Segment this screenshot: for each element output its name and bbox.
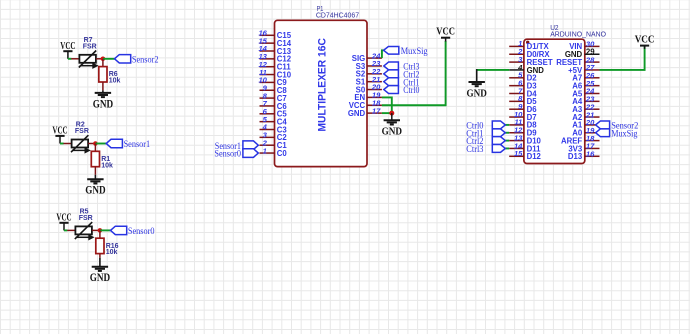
U2 pin 29 (GND) bbox=[565, 47, 600, 59]
U2 pin 23 (A4) bbox=[572, 95, 599, 107]
wire junction down to ground symbol bbox=[391, 113, 393, 120]
power flag VCC (sensor Sensor0) bbox=[56, 213, 71, 231]
wire Ctrl2 flag to U2 pin 13 bbox=[505, 140, 509, 142]
wire VCC to FSR bbox=[64, 229, 67, 231]
multiplexer P1 CD74HC4067 body bbox=[275, 20, 368, 166]
P1 pin 20 (S0) bbox=[356, 83, 382, 95]
wire Ctrl0 flag to U2 pin 11 bbox=[505, 124, 509, 126]
svg-text:Ctrl0: Ctrl0 bbox=[403, 86, 419, 96]
P1 pin 17 (GND) bbox=[348, 106, 382, 118]
microcontroller U2 ARDUINO_NANO body bbox=[524, 39, 585, 163]
net flag Ctrl3 (to U2 D11) bbox=[466, 145, 505, 156]
net flag Ctrl1 (P1 S1) bbox=[384, 78, 420, 89]
svg-text:MuxSig: MuxSig bbox=[401, 47, 428, 57]
svg-text:VCC: VCC bbox=[436, 26, 455, 37]
P1 pin 8 (C7) bbox=[260, 91, 287, 103]
svg-text:17: 17 bbox=[372, 106, 381, 115]
P1 pin 14 (C13) bbox=[258, 44, 291, 56]
ground symbol (sensor Sensor2) bbox=[93, 93, 113, 110]
P1 pin 16 (C15) bbox=[258, 29, 291, 41]
svg-text:10k: 10k bbox=[106, 249, 118, 256]
svg-text:Sensor0: Sensor0 bbox=[214, 150, 241, 160]
svg-text:FSR: FSR bbox=[79, 215, 93, 222]
svg-text:Sensor2: Sensor2 bbox=[132, 55, 159, 65]
P1 pin 6 (C5) bbox=[260, 107, 288, 119]
svg-text:FSR: FSR bbox=[75, 128, 89, 135]
U2 pin 16 (D13) bbox=[568, 150, 600, 162]
wire Ctrl3 flag to U2 pin 14 bbox=[505, 147, 509, 149]
P1 pin 7 (C6) bbox=[260, 99, 288, 111]
P1 pin 5 (C4) bbox=[260, 115, 288, 127]
U2 pin 15 (D12) bbox=[509, 149, 541, 161]
svg-text:GND: GND bbox=[90, 270, 110, 284]
net flag Sensor1 bbox=[106, 139, 150, 150]
ground symbol (P1) bbox=[382, 120, 403, 137]
svg-text:D12: D12 bbox=[527, 152, 542, 161]
FSR resistor R2 bbox=[71, 122, 90, 153]
P1 pin 4 (C3) bbox=[260, 123, 288, 135]
svg-text:16: 16 bbox=[586, 150, 595, 159]
P1 pin 13 (C12) bbox=[258, 52, 291, 64]
P1 pin 19 (EN) bbox=[354, 91, 382, 103]
svg-text:ARDUINO_NANO: ARDUINO_NANO bbox=[550, 30, 606, 39]
P1 pin 11 (C10) bbox=[259, 68, 292, 80]
net flag Ctrl2 (P1 S2) bbox=[384, 70, 420, 81]
svg-text:FSR: FSR bbox=[83, 43, 97, 50]
pin wire right of R2 bbox=[88, 143, 95, 145]
ground symbol (sensor Sensor1) bbox=[85, 179, 105, 196]
net flag Sensor2 bbox=[115, 55, 159, 66]
wire P1 SIG to MuxSig flag bbox=[382, 50, 384, 58]
pin wire left of R5 bbox=[67, 229, 75, 231]
ground symbol (sensor Sensor0) bbox=[90, 267, 110, 284]
wire junction to flag Sensor2 bbox=[103, 58, 115, 60]
svg-text:D13: D13 bbox=[568, 152, 583, 161]
P1 pin 12 (C11) bbox=[258, 60, 291, 72]
net flag Ctrl0 (to U2 D8) bbox=[466, 121, 505, 132]
power flag VCC (sensor Sensor2) bbox=[60, 41, 75, 59]
wire junction down to R1 bbox=[94, 144, 96, 152]
svg-text:MULTIPLEXER 16C: MULTIPLEXER 16C bbox=[316, 38, 328, 131]
resistor R16 10k bbox=[96, 238, 119, 256]
U2 pin 26 (A7) bbox=[572, 71, 599, 83]
junction node Sensor2 bbox=[101, 57, 106, 62]
net flag MuxSig (P1 SIG) bbox=[384, 47, 428, 57]
U2 pin 6 (D3) bbox=[509, 78, 537, 90]
svg-text:15: 15 bbox=[514, 149, 523, 158]
ground symbol (U2) bbox=[467, 82, 488, 99]
wire U2 +5V pin to VCC flag bbox=[600, 45, 645, 70]
P1 pin 18 (VCC) bbox=[349, 98, 382, 110]
U2 pin 25 (A6) bbox=[572, 79, 599, 91]
net flag Sensor0 bbox=[111, 226, 155, 237]
U2 pin 10 (D7) bbox=[509, 110, 536, 122]
U2 pin 12 (D9) bbox=[509, 126, 537, 138]
wire VCC to FSR bbox=[60, 143, 64, 145]
pin wire left of R2 bbox=[63, 143, 71, 145]
FSR resistor R7 bbox=[79, 37, 98, 68]
svg-text:Sensor1: Sensor1 bbox=[124, 140, 151, 150]
svg-text:GND: GND bbox=[467, 87, 488, 99]
svg-text:GND: GND bbox=[93, 96, 113, 110]
U2 pin 2 (D0/RX) bbox=[509, 47, 550, 59]
P1 pin 3 (C2) bbox=[260, 131, 288, 143]
wire junction down to R16 bbox=[99, 230, 101, 238]
U2 pin 13 (D10) bbox=[509, 133, 541, 145]
U2 pin 11 (D8) bbox=[509, 118, 537, 130]
power flag VCC (U2) bbox=[635, 35, 655, 49]
wire VCC to FSR bbox=[68, 58, 72, 60]
U2 pin 7 (D4) bbox=[509, 86, 537, 98]
svg-text:Sensor0: Sensor0 bbox=[128, 227, 155, 237]
svg-text:GND: GND bbox=[85, 183, 105, 197]
P1 pin 9 (C8) bbox=[260, 83, 288, 95]
U2 pin 19 (A0) bbox=[572, 126, 599, 138]
svg-text:10k: 10k bbox=[109, 78, 121, 85]
U2 pin 27 (+5V) bbox=[568, 63, 599, 75]
FSR resistor R5 bbox=[75, 208, 94, 239]
net flag Sensor0 (to P1 C0) bbox=[214, 149, 258, 160]
net flag Ctrl3 (P1 S3) bbox=[384, 62, 420, 73]
power flag VCC (sensor Sensor1) bbox=[52, 126, 67, 144]
wire P1 GND pin to junction bbox=[382, 112, 392, 114]
net flag MuxSig (U2 A0) bbox=[596, 129, 638, 140]
U2 pin 1 (D1/TX) bbox=[509, 39, 549, 51]
net flag Ctrl0 (P1 S0) bbox=[384, 86, 420, 97]
U2 pin 30 (VIN) bbox=[569, 40, 599, 52]
pin wire left of R7 bbox=[71, 58, 79, 60]
P1 pin 15 (C14) bbox=[258, 36, 291, 48]
net flag Sensor2 (U2 A1) bbox=[596, 121, 639, 132]
svg-text:CD74HC4067: CD74HC4067 bbox=[316, 10, 359, 19]
U2 pin 20 (A1) bbox=[572, 118, 599, 130]
wire R1 to ground bbox=[94, 167, 96, 175]
net flag Sensor1 (to P1 C1) bbox=[215, 141, 259, 152]
power flag VCC (P1) bbox=[436, 26, 455, 41]
net flag Ctrl2 (to U2 D10) bbox=[466, 137, 505, 148]
svg-text:Ctrl3: Ctrl3 bbox=[466, 145, 484, 155]
wire Ctrl1 flag to U2 pin 12 bbox=[505, 132, 509, 134]
resistor R6 10k bbox=[99, 67, 121, 85]
U2 pin 5 (D2) bbox=[509, 71, 537, 83]
svg-text:1: 1 bbox=[263, 146, 267, 155]
junction node Sensor1 bbox=[93, 141, 98, 146]
U2 pin 3 (RESET) bbox=[509, 55, 553, 67]
U2 pin 21 (A2) bbox=[572, 110, 599, 122]
svg-text:MuxSig: MuxSig bbox=[611, 129, 638, 139]
svg-text:C0: C0 bbox=[277, 149, 288, 158]
wire P1 VCC pin to VCC flag bbox=[382, 41, 446, 105]
U2 pin 9 (D6) bbox=[509, 102, 537, 114]
wire U2 GND pin to ground symbol bbox=[476, 69, 509, 71]
svg-text:GND: GND bbox=[382, 126, 403, 138]
svg-text:10k: 10k bbox=[101, 162, 113, 169]
wire junction to flag Sensor1 bbox=[95, 143, 106, 145]
U2 pin 4 (GND) bbox=[509, 63, 544, 75]
U2 pin 18 (AREF) bbox=[561, 134, 600, 146]
P1 pin 10 (C9) bbox=[258, 76, 287, 88]
P1 pin 24 (SIG) bbox=[352, 51, 382, 63]
resistor R1 10k bbox=[91, 151, 113, 169]
P1 pin 21 (S1) bbox=[356, 75, 382, 87]
pin wire right of R7 bbox=[96, 58, 103, 60]
U2 pin 28 (RESET) bbox=[556, 55, 599, 67]
P1 pin 2 (C1) bbox=[260, 138, 288, 150]
wire junction down to R6 bbox=[102, 59, 104, 67]
net flag Ctrl1 (to U2 D9) bbox=[466, 129, 505, 140]
U2 pin 17 (3V3) bbox=[568, 142, 599, 154]
wire junction to flag Sensor0 bbox=[100, 229, 111, 231]
U2 pin 24 (A5) bbox=[572, 87, 599, 99]
junction node P1 ground bbox=[389, 111, 394, 116]
pin wire right of R5 bbox=[92, 229, 100, 231]
wire P1 EN to ground net bbox=[382, 97, 392, 113]
U2 pin 22 (A3) bbox=[572, 102, 599, 114]
U2 pin 14 (D11) bbox=[509, 141, 541, 153]
U2 pin 1 marker dot bbox=[526, 41, 529, 44]
P1 pin 1 (C0) bbox=[260, 146, 288, 158]
wire R16 to ground bbox=[99, 254, 101, 258]
wire R6 to ground bbox=[102, 82, 104, 90]
P1 pin 23 (S3) bbox=[356, 59, 382, 71]
junction node Sensor0 bbox=[98, 228, 103, 233]
P1 pin 22 (S2) bbox=[356, 67, 382, 79]
U2 pin 8 (D5) bbox=[509, 94, 537, 106]
svg-text:GND: GND bbox=[348, 109, 366, 118]
svg-text:VCC: VCC bbox=[635, 35, 655, 46]
